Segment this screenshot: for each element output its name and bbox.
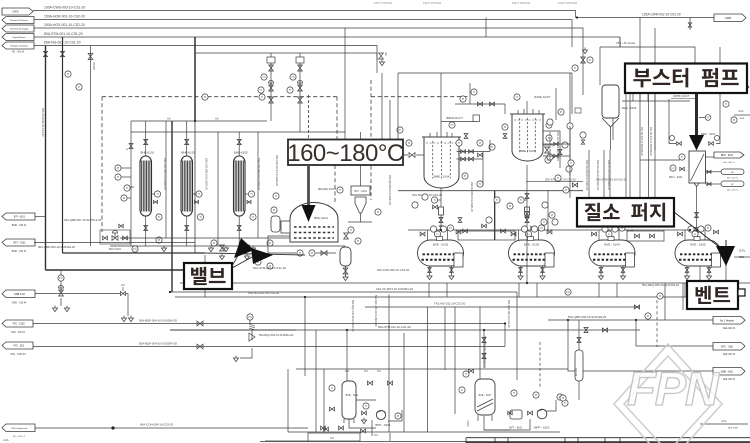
svg-text:TI: TI — [520, 198, 523, 202]
manway BVE - 6103 — [528, 237, 534, 241]
valve below r2 b — [525, 212, 529, 217]
svg-text:BKO - 6102: BKO - 6102 — [721, 155, 734, 157]
wire x90 long drop — [91, 53, 96, 246]
svg-text:50A-QBD-004-10-CS1-20: 50A-QBD-004-10-CS1-20 — [507, 300, 510, 328]
wire x517 drop — [516, 292, 518, 380]
svg-text:TI: TI — [479, 182, 482, 186]
flag B6B-6(8) — [713, 368, 745, 382]
svg-text:TI: TI — [496, 198, 499, 202]
manway BVE - 6102 — [437, 237, 443, 241]
rot label reactor1 left — [388, 175, 391, 206]
svg-text:50A-QBD-005-10-SUS304-20: 50A-QBD-005-10-SUS304-20 — [38, 245, 75, 249]
valve BVE - 6105 top2 — [714, 230, 719, 234]
wire x305 drop — [304, 297, 306, 376]
instr mid bottom b — [657, 293, 663, 299]
svg-text:B6B - 6(8): B6B - 6(8) — [721, 370, 733, 373]
svg-text:BHE-6105: BHE-6105 — [234, 151, 248, 155]
svg-text:TI: TI — [252, 215, 255, 219]
instr mid bottom a — [645, 313, 651, 319]
valve NG elbow — [377, 52, 387, 66]
wire condensate line — [35, 423, 308, 429]
label NG dist box — [0, 0, 1, 1]
instr left of r2 bottom — [545, 157, 551, 163]
valve col3 feed — [237, 139, 241, 144]
instr far right a — [723, 101, 729, 107]
svg-text:PI: PI — [408, 141, 411, 145]
wire NG-011 line — [365, 306, 640, 308]
wire BVE - 6105 inlet — [685, 230, 705, 240]
valve reactor2 right — [545, 147, 550, 153]
dashed boundary x371 — [370, 80, 372, 200]
border bottom thin — [260, 441, 750, 443]
svg-text:PI: PI — [158, 238, 161, 242]
wire BVE - 6104 drain2 — [620, 266, 625, 280]
valve BVE6107 in — [469, 369, 474, 373]
svg-text:4 FL: 4 FL — [738, 109, 744, 113]
wire drop x110 — [0, 0, 1, 1]
svg-text:PM Condensate: PM Condensate — [12, 427, 28, 430]
svg-text:SEE 400 #1: SEE 400 #1 — [723, 328, 736, 330]
wire x527 riser bottom — [526, 232, 528, 283]
svg-text:LI: LI — [527, 232, 529, 236]
svg-text:TI: TI — [491, 145, 494, 149]
control station B — [287, 53, 304, 103]
instr right-mid c — [558, 109, 564, 115]
valve below BML — [321, 251, 327, 256]
label BMC-6101 — [701, 132, 716, 136]
instr far right b — [731, 117, 737, 123]
svg-text:BPP - 6101: BPP - 6101 — [375, 423, 391, 427]
wire BVE - 6104 inlet — [599, 230, 619, 240]
instr col3 side b — [250, 214, 256, 220]
label 3FL — [739, 249, 746, 259]
wire duct line r1 — [441, 115, 480, 122]
svg-text:15A-CSO-005-10-SUS304-20: 15A-CSO-005-10-SUS304-20 — [205, 158, 208, 190]
watermark diamond inner — [624, 356, 712, 443]
label right rot2 — [596, 160, 599, 191]
title block top line — [466, 437, 750, 439]
wire reactor area frame — [382, 73, 572, 140]
svg-text:TI: TI — [289, 88, 292, 92]
instr right-mid a — [549, 212, 555, 218]
wire pump2 out — [484, 400, 556, 430]
vent box nub — [738, 289, 745, 296]
wire purge verticals — [589, 93, 655, 198]
wire main vertical x195 (thick) — [194, 37, 196, 253]
svg-text:25A-QBD-007-10-SUPPL4-20: 25A-QBD-007-10-SUPPL4-20 — [64, 218, 102, 222]
svg-text:4TC - 303: 4TC - 303 — [13, 345, 24, 348]
callout 160~180C box — [288, 140, 403, 166]
label NG-011 — [434, 302, 466, 306]
instr BVE6107 b — [459, 387, 465, 393]
svg-text:TI: TI — [681, 155, 684, 159]
svg-text:BVE - 6101: BVE - 6101 — [346, 394, 359, 397]
svg-text:N.C: N.C — [121, 285, 125, 287]
rot label x470 — [470, 182, 473, 212]
nozzle box BVE - 6104 — [626, 253, 635, 267]
valve BVE - 6103 top2 — [547, 230, 552, 234]
wire bottom box — [265, 433, 360, 441]
svg-text:25A-CON-005-10-CS1-20: 25A-CON-005-10-CS1-20 — [377, 268, 410, 272]
wire bottom tees — [372, 420, 390, 441]
instr r2 mid b — [502, 124, 508, 130]
wire vent risers — [700, 266, 726, 281]
rot label BKO left a — [640, 127, 643, 156]
rot label BKO left b — [649, 127, 652, 156]
svg-text:BF-6101: BF-6101 — [576, 367, 578, 376]
svg-text:15A-CSO-005-10-SUS304-20: 15A-CSO-005-10-SUS304-20 — [163, 158, 166, 190]
instr left chain a — [115, 165, 131, 171]
wire column feed header upper — [131, 117, 267, 122]
instr col1 side b — [156, 214, 162, 220]
svg-text:50A-STM-011-10-CS1-20: 50A-STM-011-10-CS1-20 — [378, 325, 411, 329]
instr BML row a — [348, 227, 354, 233]
svg-text:75A - Air Hose: 75A - Air Hose — [616, 41, 636, 45]
valve right top — [581, 57, 586, 63]
wire left long vertical x65 — [0, 0, 1, 1]
svg-text:TC: TC — [291, 75, 295, 79]
svg-text:M: M — [126, 149, 128, 151]
wire x640 vertical — [639, 18, 641, 64]
frame valve cluster mid — [458, 217, 515, 240]
tiny header note 1 — [374, 1, 393, 5]
wire bottom net1 — [288, 330, 560, 432]
wire x445 drop — [444, 307, 446, 370]
valve bpp2 suction — [508, 411, 533, 415]
instr near cyclone b — [337, 187, 343, 193]
wire BQF line1 — [33, 319, 505, 324]
nozzle box BVE - 6105 — [712, 253, 721, 267]
instr PG bcv — [132, 246, 138, 252]
funnel drain col3 — [223, 246, 228, 252]
valve below r1 — [439, 217, 443, 230]
svg-text:TI: TI — [543, 220, 546, 224]
svg-text:50A-BQF-400-10-SUS304-20: 50A-BQF-400-10-SUS304-20 — [374, 295, 377, 327]
instr BVE6101 b — [363, 403, 369, 409]
wire BHE6105 drop — [610, 127, 612, 150]
valve between r1r2 extra — [464, 134, 507, 139]
wire below reactor1 — [440, 188, 442, 230]
rot label STM drop — [41, 108, 44, 137]
wire HOR header 150A-HOR-001-10-CS2-20 — [34, 15, 572, 48]
funnel right top — [582, 48, 587, 54]
svg-text:AA: AA — [215, 117, 219, 121]
label 50A-REQ — [642, 283, 679, 287]
svg-text:TI: TI — [156, 192, 159, 196]
svg-text:PI: PI — [565, 188, 568, 192]
flag 4TC-3103 — [2, 320, 33, 334]
svg-text:PI: PI — [462, 97, 465, 101]
instr below BML a — [297, 250, 303, 256]
svg-text:TI: TI — [126, 186, 129, 190]
wire top right extra — [620, 37, 720, 90]
svg-text:TI: TI — [574, 66, 577, 70]
vessel BKO-6101 — [669, 151, 706, 187]
svg-text:BNID - 030 #1: BNID - 030 #1 — [12, 225, 27, 227]
callout valve box — [184, 263, 232, 289]
label rot col2 — [205, 158, 208, 190]
valve bottom3 — [324, 407, 367, 433]
svg-text:PI: PI — [273, 208, 276, 212]
valve on STM drop — [60, 51, 64, 56]
valve below r2 col — [525, 217, 544, 229]
svg-text:40A-CON-004-10-CS2-20: 40A-CON-004-10-CS2-20 — [140, 423, 174, 427]
svg-text:OWG - 030 #4: OWG - 030 #4 — [12, 303, 28, 305]
instr left small a — [255, 259, 261, 265]
wire B6B line — [568, 320, 713, 371]
wire BVE - 6105 drain2 — [706, 266, 711, 280]
instr BML row b — [355, 238, 361, 244]
instr purge a — [563, 187, 569, 193]
svg-text:BME - 6105: BME - 6105 — [520, 149, 536, 153]
instr BKO a — [670, 154, 685, 171]
tag pill 1 — [721, 169, 744, 180]
valve col3 drain — [237, 226, 241, 231]
svg-text:PI: PI — [213, 241, 216, 245]
wire VC-BOT line — [170, 287, 517, 292]
wire columns bottom header2 — [110, 245, 345, 247]
wire BTI line — [35, 216, 46, 218]
valve on NG drop — [43, 51, 47, 56]
svg-text:BG: BG — [131, 187, 135, 189]
wire BVE - 6102 drain2 — [449, 266, 454, 280]
instr BML left a — [273, 193, 279, 199]
svg-text:BME - 6104: BME - 6104 — [434, 174, 450, 178]
svg-text:CWS: CWS — [12, 10, 18, 14]
label 6055 DUCT — [671, 94, 697, 99]
svg-text:PI: PI — [560, 110, 563, 114]
pump BPP-6102 — [534, 409, 550, 429]
funnel drain col2 — [208, 246, 213, 252]
valve filter top — [577, 338, 581, 343]
vessel BF-6101 filter — [575, 350, 583, 381]
label 2FL — [700, 419, 748, 430]
valve cluster box right — [627, 231, 664, 241]
instr col3 b — [267, 240, 273, 246]
svg-text:TI: TI — [433, 198, 436, 202]
label 25A-STM-014 — [596, 178, 627, 182]
svg-text:50A-BQF-004-10-SUS304-20: 50A-BQF-004-10-SUS304-20 — [139, 319, 177, 323]
svg-text:N6G - 030 #4: N6G - 030 #4 — [11, 332, 26, 334]
svg-text:BTI - 6101: BTI - 6101 — [14, 216, 26, 219]
wire BTC line — [636, 320, 713, 346]
tiny header note 2 — [423, 1, 442, 5]
valve BKO bottom2 — [695, 228, 699, 233]
svg-text:BHE-6101: BHE-6101 — [140, 151, 154, 155]
svg-text:3 FL: 3 FL — [739, 249, 746, 253]
dashed boundary right segment — [336, 97, 338, 139]
svg-text:80A-STM-001-10-CS1-20: 80A-STM-001-10-CS1-20 — [44, 32, 83, 36]
svg-text:(B990) DUCT: (B990) DUCT — [446, 116, 463, 120]
wire r2 top pipes — [455, 83, 505, 114]
rot label x374 — [374, 295, 377, 327]
instr col1 d — [156, 237, 162, 243]
fitting below r2 — [525, 207, 530, 215]
valve BQF2 — [197, 344, 203, 349]
flag BKO-6102 — [714, 152, 744, 164]
flag No1 Header — [713, 317, 745, 331]
wire header risers — [146, 121, 240, 156]
svg-text:PI: PI — [504, 125, 507, 129]
flag 4TC-303 — [2, 342, 33, 356]
arrow big down (into BML-6101) — [302, 205, 316, 222]
instr near cyclone a — [375, 209, 381, 215]
wire booster bottom ticks — [622, 93, 690, 101]
fitting below r1 — [439, 207, 444, 215]
svg-text:TI: TI — [564, 401, 567, 405]
instr left small b — [267, 263, 273, 269]
flag BTV-6101 — [2, 239, 35, 253]
wire cyclone drop — [348, 213, 372, 222]
svg-text:100A-CWS-003-10-CS1-20: 100A-CWS-003-10-CS1-20 — [44, 6, 85, 10]
svg-text:LI: LI — [608, 232, 610, 236]
svg-text:15A-CSO-006-10-SUS304-20: 15A-CSO-006-10-SUS304-20 — [257, 158, 260, 190]
svg-text:20A-VC-017-10-SUS304-20: 20A-VC-017-10-SUS304-20 — [607, 160, 610, 190]
wire STM to BVE6107 riser — [482, 330, 486, 368]
wire drum feeders — [429, 283, 703, 297]
wire right drop to valve — [716, 93, 720, 144]
vessel BVE - 6105 — [675, 240, 721, 266]
wire x480 drop — [479, 307, 481, 380]
svg-text:N6G - 0103 #4: N6G - 0103 #4 — [10, 354, 26, 356]
wire long y369 — [296, 368, 568, 370]
svg-text:Thermal Oil Return: Thermal Oil Return — [10, 19, 29, 22]
svg-text:TI: TI — [261, 95, 264, 99]
instr BVE - 6104 extra b — [612, 226, 618, 232]
svg-text:Nitrogen Gas(Sea): Nitrogen Gas(Sea) — [10, 45, 28, 48]
svg-text:PI: PI — [377, 210, 380, 214]
label 4FL second — [734, 109, 750, 120]
instr r2 top cluster b — [471, 89, 477, 95]
svg-text:PI: PI — [123, 196, 126, 200]
svg-text:50A-BQF-004-10-SUS304-20: 50A-BQF-004-10-SUS304-20 — [139, 342, 177, 346]
svg-text:PG: PG — [566, 290, 570, 294]
valve BQF1 — [197, 321, 203, 326]
funnel drain col4 — [250, 246, 255, 252]
wire BKO stem (thick) — [695, 93, 698, 135]
instr left chain d — [121, 195, 131, 201]
valve right r2 c — [558, 150, 562, 155]
callout 160~180C text — [287, 140, 404, 167]
svg-text:125A-CWR-002-10-C01-20: 125A-CWR-002-10-C01-20 — [642, 13, 681, 17]
svg-text:(B1200) DUCT: (B1200) DUCT — [318, 187, 337, 191]
wire STM-011 line — [296, 325, 640, 330]
valve r2 top a — [478, 102, 483, 106]
svg-text:SEE: SEE — [740, 118, 745, 120]
wire BVE - 6103 inlet — [519, 230, 539, 240]
instr drums feed d — [552, 219, 558, 225]
wire x205 vertical — [204, 255, 206, 297]
svg-text:50A-QBD-003-10-SUS304-20: 50A-QBD-003-10-SUS304-20 — [568, 315, 607, 319]
nozzle left of BML — [281, 221, 290, 233]
tiny header note 4 — [558, 1, 577, 5]
svg-text:SHB-6 02: SHB-6 02 — [14, 293, 25, 296]
label NO NC — [345, 370, 381, 373]
instr BVE - 6105 extra b — [698, 226, 704, 232]
rot label x483 — [483, 336, 486, 368]
wire thick NG header y270 — [46, 269, 185, 271]
wire NG line y297 — [175, 296, 698, 298]
instr above col a — [65, 71, 71, 77]
valve mid bottom c — [634, 305, 639, 309]
wire BVE6107 bottom — [484, 416, 510, 430]
instr pump2 b — [511, 390, 568, 406]
vessel BVE - 6103 — [509, 240, 555, 266]
instr BML left b — [271, 207, 277, 213]
svg-text:NG - 001 #1: NG - 001 #1 — [12, 52, 25, 54]
wire thick STM header y253 — [63, 253, 306, 255]
label 25A-STM-013 — [545, 178, 576, 182]
label 15A-NG-010 — [248, 291, 280, 295]
cluster between reactors — [456, 140, 495, 187]
svg-text:FPN: FPN — [627, 362, 720, 415]
instr VT near stem — [699, 115, 711, 121]
svg-text:25A-NC-007-10-SUS304-20: 25A-NC-007-10-SUS304-20 — [649, 127, 652, 156]
valve station BCV-6101 — [100, 224, 130, 251]
wire x683 drop — [665, 283, 683, 320]
svg-text:A4A: A4A — [3, 438, 9, 442]
instr BVE - 6103 top b — [538, 225, 544, 231]
pump BFT-6101 box — [510, 410, 523, 430]
label NC pump — [374, 434, 378, 437]
svg-text:(6400) DUCT: (6400) DUCT — [534, 95, 551, 99]
arrow stem from 160 box — [307, 165, 310, 207]
label rot col1 — [163, 158, 166, 190]
small vessel left of BML — [271, 216, 280, 232]
svg-text:BHE-6102: BHE-6102 — [181, 151, 195, 155]
dashed boundary left — [101, 97, 103, 232]
wire drums top header — [408, 229, 700, 231]
label rot mid1 — [351, 300, 354, 332]
instr BVE6107 a — [463, 371, 469, 377]
junction condensate — [111, 426, 114, 429]
flag BTC-6(5) — [713, 343, 745, 357]
flag 4FL right — [733, 84, 749, 96]
wire below reactor2 — [526, 165, 528, 232]
instr col2 side a — [193, 191, 203, 197]
svg-text:PI: PI — [562, 396, 565, 400]
svg-text:BML-6101: BML-6101 — [314, 216, 328, 220]
funnel drain col1 — [161, 246, 166, 252]
instr col2 b — [211, 240, 217, 246]
instr PG prv — [247, 314, 253, 324]
svg-text:PI: PI — [67, 72, 70, 76]
svg-text:N.O: N.O — [345, 370, 349, 373]
svg-text:TI: TI — [557, 176, 560, 180]
svg-text:25A-NG-016-10-SUS304-20: 25A-NG-016-10-SUS304-20 — [596, 160, 599, 191]
valve col1 side — [0, 0, 1, 1]
wire NG header 65A-NG-001-10-CS1-20 — [34, 41, 377, 74]
svg-text:BHE - 6105: BHE - 6105 — [622, 106, 637, 110]
svg-text:BFT - 6101: BFT - 6101 — [510, 426, 523, 430]
arrow down-right at BVE-6105 — [716, 240, 735, 266]
svg-text:25A-NC-005-10-SUS304-20: 25A-NC-005-10-SUS304-20 — [640, 127, 643, 156]
wire x347 drop — [346, 330, 348, 382]
svg-text:PI: PI — [449, 226, 452, 230]
instr reactor2 right a — [546, 122, 552, 128]
svg-text:PI: PI — [647, 314, 650, 318]
flag Nitrogen Gas(Sea) — [2, 42, 34, 54]
label right rot3 — [607, 160, 610, 190]
valve BVE - 6105 top — [678, 232, 683, 236]
svg-text:No.1 Header: No.1 Header — [720, 319, 734, 322]
long verticals bottom — [389, 295, 455, 433]
instr right-mid b — [541, 219, 547, 225]
svg-text:ST-002: ST-002 — [92, 62, 95, 70]
valve BVE - 6102 top — [420, 232, 425, 236]
dashed boundary top — [102, 96, 337, 98]
svg-text:150A-HOS-001-10-CS2-20: 150A-HOS-001-10-CS2-20 — [44, 23, 85, 27]
